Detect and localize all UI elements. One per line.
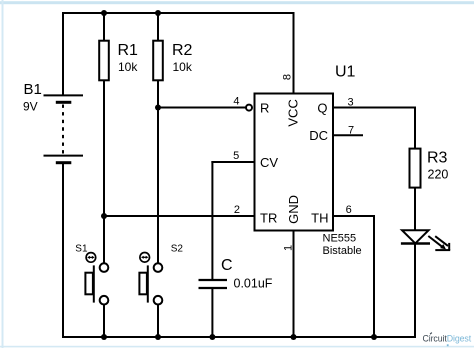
wire: battery positive lead — [62, 13, 64, 95]
svg-text:CircuitDigest: CircuitDigest — [423, 333, 472, 343]
svg-text:VCC: VCC — [286, 99, 301, 126]
svg-text:TR: TR — [260, 211, 277, 226]
wire: pin 6 threshold horizontal — [333, 215, 374, 217]
svg-text:4: 4 — [233, 95, 239, 107]
svg-text:R: R — [260, 101, 269, 116]
op-amp U1 IC body NE555 — [255, 94, 334, 231]
node: R1 / pin 2 junction — [101, 213, 107, 219]
svg-text:9V: 9V — [23, 100, 38, 114]
svg-text:CV: CV — [260, 155, 278, 170]
svg-text:R1: R1 — [118, 42, 139, 59]
svg-text:10k: 10k — [118, 60, 138, 74]
svg-text:U1: U1 — [335, 64, 356, 81]
svg-text:S1: S1 — [75, 244, 88, 255]
svg-text:R2: R2 — [172, 42, 193, 59]
wire: pin 1 ground lead — [293, 231, 295, 338]
node: S1 / ground rail junction — [101, 334, 107, 340]
capacitor C — [199, 280, 228, 288]
svg-text:3: 3 — [348, 96, 354, 108]
svg-text:10k: 10k — [173, 60, 193, 74]
wire: pin 3 to R3 — [414, 108, 416, 149]
wire: S1 bottom lead — [103, 305, 105, 337]
resistor R3 — [410, 149, 421, 188]
svg-text:2: 2 — [234, 204, 240, 216]
wire: LED cathode to ground rail — [414, 244, 416, 338]
svg-text:TH: TH — [311, 211, 328, 226]
svg-text:Bistable: Bistable — [323, 245, 362, 257]
svg-text:1: 1 — [282, 245, 294, 251]
wire: pin 8 VCC lead — [293, 13, 295, 94]
wire: R2 bottom lead to node — [157, 81, 159, 108]
resistor R1 — [99, 41, 109, 81]
battery B1 — [44, 95, 84, 162]
svg-text:220: 220 — [428, 168, 449, 182]
svg-text:C: C — [221, 257, 233, 274]
wire: R1 bottom lead to TR node — [103, 81, 105, 216]
wire: pin 5 CV horizontal — [212, 161, 254, 163]
node: capacitor / ground rail junction — [209, 334, 215, 340]
resistor R2 — [153, 41, 163, 81]
wire: pin 4 reset — [158, 107, 246, 109]
wire: pin 7 discharge stub — [333, 134, 362, 136]
wire: R3 to LED — [414, 188, 416, 230]
wire: R1 top lead — [103, 13, 105, 41]
svg-text:6: 6 — [346, 204, 352, 216]
node: pin 6 / ground rail junction — [371, 334, 377, 340]
node: R2 / pin 4 junction — [155, 105, 161, 111]
svg-text:GND: GND — [286, 195, 301, 224]
svg-text:7: 7 — [348, 124, 354, 136]
svg-text:DC: DC — [309, 128, 328, 143]
svg-text:R3: R3 — [427, 150, 448, 167]
wire: battery negative lead — [62, 164, 64, 337]
node: S2 / ground rail junction — [155, 334, 161, 340]
wire: S1 top lead — [103, 216, 105, 263]
wire: pin 2 trigger — [104, 215, 255, 217]
wire: top power rail — [63, 12, 294, 14]
wire: pin 5 CV vertical to capacitor — [211, 162, 213, 279]
LED light emission arrows — [428, 236, 450, 250]
wire: S2 bottom lead — [157, 305, 159, 337]
svg-text:8: 8 — [282, 74, 294, 80]
wire: node to S2 top — [157, 108, 159, 264]
wire: bottom ground rail — [63, 336, 415, 338]
wire: pin 3 output horizontal — [333, 107, 415, 109]
svg-text:S2: S2 — [171, 244, 184, 255]
pin 4 inversion bubble — [246, 105, 252, 111]
switch S1 pushbutton — [85, 253, 108, 305]
wire: pin 6 vertical to ground rail — [373, 216, 375, 337]
svg-text:5: 5 — [233, 150, 239, 162]
svg-text:NE555: NE555 — [323, 233, 357, 245]
wire: R2 top lead — [157, 13, 159, 41]
node: top rail / R2 junction — [155, 10, 161, 16]
svg-text:Q: Q — [317, 101, 327, 116]
svg-text:B1: B1 — [24, 81, 42, 98]
node: top rail / R1 junction — [101, 10, 107, 16]
node: pin 1 / ground rail junction — [291, 334, 297, 340]
wire: capacitor to ground rail — [211, 289, 213, 337]
svg-text:0.01uF: 0.01uF — [234, 277, 273, 291]
switch S2 pushbutton — [139, 252, 162, 304]
LED D1 — [401, 230, 430, 243]
